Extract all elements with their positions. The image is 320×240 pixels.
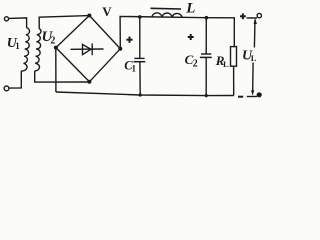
wire secondary top to bridge top	[39, 16, 89, 29]
node dot C2 top	[205, 16, 209, 20]
svg-text:L: L	[251, 53, 257, 63]
svg-text:2: 2	[50, 35, 55, 46]
node dot bridge top	[87, 14, 91, 18]
svg-text:L: L	[185, 1, 195, 17]
svg-text:1: 1	[132, 64, 137, 74]
plus sign C1	[126, 39, 132, 41]
diode cathode bar	[91, 43, 93, 55]
bottom rail	[56, 92, 234, 96]
resistor RL box	[231, 47, 237, 67]
plus sign C2	[188, 36, 194, 38]
node dot bridge left	[54, 46, 58, 50]
svg-text:1: 1	[15, 41, 20, 51]
arrowhead up	[254, 18, 257, 24]
wire secondary bottom to bridge bottom	[35, 71, 89, 82]
transformer primary winding	[21, 28, 29, 71]
svg-text:L: L	[223, 59, 229, 69]
output wire bottom-right	[247, 96, 257, 98]
wire bridge left vertex down	[55, 48, 57, 92]
svg-text:2: 2	[193, 58, 198, 69]
diode triangle	[83, 44, 92, 54]
terminal top-right	[257, 13, 261, 17]
capacitor C2 plates	[201, 53, 211, 55]
resistor RL bottom wire	[233, 66, 235, 95]
diode lead	[71, 48, 104, 50]
node dot bridge right	[118, 47, 122, 51]
svg-text:V: V	[102, 4, 112, 19]
capacitor C2 stem top	[205, 18, 207, 54]
wire primary bottom to terminal	[9, 71, 21, 88]
arrowhead down	[251, 90, 254, 96]
wire top-left to primary	[9, 18, 27, 28]
terminal top-left	[4, 17, 8, 21]
minus sign output	[238, 96, 243, 98]
bridge rectifier diamond	[56, 16, 120, 82]
terminal bottom-right	[257, 93, 261, 97]
node dot C1 top	[138, 15, 142, 19]
node dot bridge bottom	[87, 80, 91, 84]
transformer secondary winding	[35, 29, 41, 71]
terminal bottom-left	[4, 86, 9, 91]
node dot C1 bottom	[139, 93, 142, 96]
capacitor C1 stem bottom	[139, 62, 141, 95]
capacitor C1 stem top	[139, 17, 141, 59]
plus sign output	[240, 15, 246, 17]
node dot C2 bottom	[205, 94, 208, 97]
inductor L core bar	[151, 7, 182, 10]
inductor L coil	[152, 13, 182, 18]
wire bridge right vertex up and top rail	[120, 16, 234, 48]
capacitor C2 stem bottom	[205, 57, 207, 95]
voltage arrow UL line	[253, 20, 256, 48]
output wire top-right	[247, 17, 258, 19]
capacitor C1 plates	[134, 57, 144, 59]
